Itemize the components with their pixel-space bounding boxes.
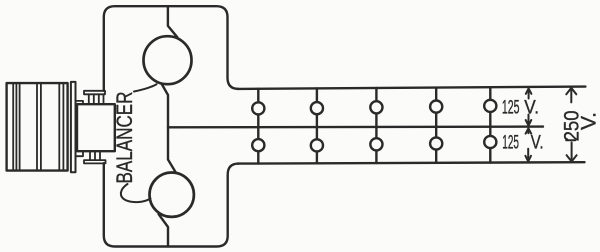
lamp L2b	[311, 139, 323, 151]
bottom brush holder and comb	[84, 151, 106, 163]
lamp L3b	[370, 138, 382, 150]
balancer upper machine field frame	[104, 6, 239, 91]
load column 5	[484, 87, 496, 162]
svg-text:BALANCER: BALANCER	[112, 92, 137, 184]
wire stem 1	[257, 89, 259, 164]
svg-text:V.: V.	[531, 132, 544, 153]
svg-text:125: 125	[502, 132, 519, 153]
dimension arrow 125V lower span	[525, 128, 531, 161]
wire: -125V outer feeder	[238, 162, 585, 163]
load column 4	[430, 88, 442, 163]
dimension arrow 125V upper span	[526, 88, 532, 125]
leader to lower armature	[121, 184, 151, 202]
lamp L4a	[430, 101, 442, 113]
load column 2	[311, 88, 323, 163]
lamp L3a	[370, 101, 382, 113]
lamp L1a	[252, 102, 264, 114]
motor M (driving motor, cylinder side view)	[7, 83, 68, 171]
motor end flange	[71, 82, 76, 172]
lower frame pole slit	[159, 214, 168, 246]
wire stem 2	[316, 88, 318, 163]
lamp L5a	[484, 100, 496, 112]
leader to upper armature	[134, 84, 157, 91]
armature A1 (upper balancer machine)	[144, 36, 192, 84]
wire stem 5	[489, 87, 491, 162]
top bearing tab	[76, 101, 83, 104]
lamp L4b	[430, 137, 442, 149]
balancer lower machine field frame	[104, 163, 239, 246]
wire: series connection between armatures	[162, 84, 177, 173]
upper frame pole slit	[168, 6, 177, 37]
top brush holder and comb	[84, 91, 105, 104]
shaft coupling / commutator box	[77, 104, 115, 151]
wire: +125V outer feeder	[238, 87, 586, 89]
armature A2 (lower balancer machine)	[150, 173, 194, 217]
wire stem 4	[435, 88, 437, 163]
load column 1	[252, 89, 264, 164]
lamp L1b	[252, 139, 264, 151]
svg-text:125: 125	[502, 97, 520, 118]
svg-text:V.: V.	[524, 97, 539, 118]
dimension arrow 250V full span	[566, 88, 576, 162]
bottom bearing tab	[76, 151, 83, 156]
wire stem 3	[375, 88, 377, 163]
load column 3	[370, 88, 382, 163]
lamp L5b	[484, 136, 496, 148]
lamp L2a	[311, 102, 323, 114]
svg-text:V.: V.	[578, 112, 600, 130]
wire: neutral	[168, 125, 543, 128]
